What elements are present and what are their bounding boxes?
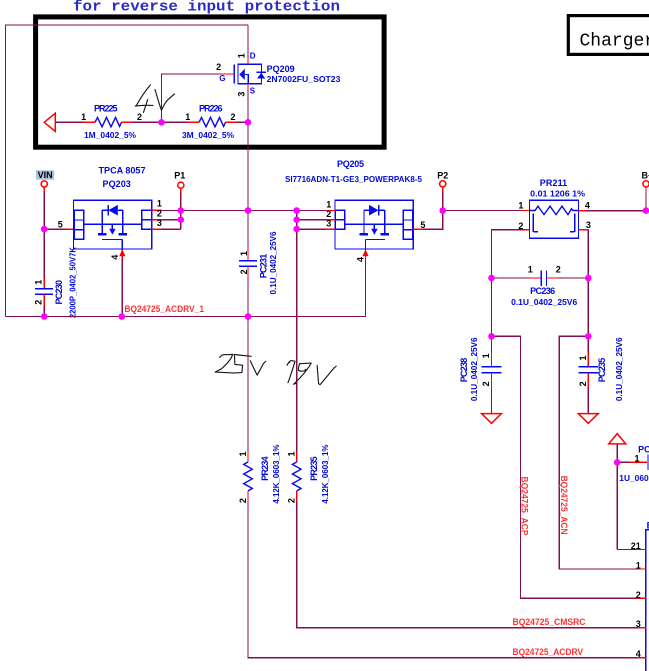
svg-text:2: 2 [578,381,588,386]
svg-text:2: 2 [636,590,641,600]
wire: CMSRC bottom run to IC pin3 [297,502,637,627]
svg-text:2: 2 [556,264,561,274]
wire: PR211 pin3 to ACN vertical [579,229,589,231]
svg-text:4: 4 [636,649,641,659]
svg-text:PC231: PC231 [258,254,268,279]
svg-text:0.1U_0402_25V6: 0.1U_0402_25V6 [511,297,577,307]
wire: P2 node to PR211 [443,210,522,212]
wire: PQ205 pins 2,3 to CMSRC vertical [297,219,327,221]
capacitor PC2xx (right edge, partial) [617,461,629,463]
svg-text:2: 2 [230,112,235,122]
svg-text:1: 1 [528,264,533,274]
resistor PR225 [83,121,95,123]
svg-text:Charger: Charger [580,31,649,51]
svg-text:1: 1 [636,560,641,570]
svg-text:5: 5 [58,220,63,230]
transistor PQ209 [233,65,235,84]
svg-text:D: D [250,52,256,61]
power arrow (up) right branch [609,434,626,444]
svg-text:3: 3 [326,218,331,228]
svg-text:3: 3 [636,619,641,629]
wire: drain drop to PQ209 [247,25,249,58]
wire: left rail + top wire to PQ209 drain [6,25,249,317]
handwriting 19V [287,361,295,383]
PQ205 pin4 stub with arrow [365,249,367,258]
svg-text:21: 21 [631,541,641,551]
svg-text:P1: P1 [174,170,185,180]
wire: main node row [162,210,327,212]
port arrow (input, points left) [44,113,55,131]
resistor PR226 [187,121,199,123]
svg-text:PC235: PC235 [597,358,607,383]
capacitor PC235 [587,336,589,352]
svg-text:P2: P2 [437,170,448,180]
svg-text:2: 2 [481,381,491,386]
IC pin stubs [637,549,646,551]
svg-text:PQ205: PQ205 [337,159,364,169]
ground (PC238) [482,414,502,424]
sense resistor PR211 [530,200,579,238]
svg-text:4.12K_0603_1%: 4.12K_0603_1% [271,444,281,504]
svg-text:1: 1 [518,201,523,211]
svg-text:2200P_0402_50V7K: 2200P_0402_50V7K [68,247,78,318]
svg-text:2: 2 [238,498,248,503]
svg-text:1: 1 [634,454,639,464]
svg-text:PC238: PC238 [459,358,469,383]
svg-text:4.12K_0603_1%: 4.12K_0603_1% [320,444,330,504]
wire: PR211 pin4 to B+ [579,210,587,212]
svg-text:PR226: PR226 [199,104,223,114]
wire: PR211 pin2 to ACP vertical [522,229,530,231]
wire: ACDRV_1 row [6,259,366,317]
svg-text:3: 3 [586,220,591,230]
port VIN [36,170,54,179]
svg-text:B+: B+ [642,171,649,181]
handwriting 4V [136,85,150,106]
svg-text:0.1U_0402_25V6: 0.1U_0402_25V6 [268,231,278,294]
wire: right branch vertical to IC pin 21 [616,444,618,550]
svg-text:PQ209: PQ209 [267,64,295,74]
svg-text:PR211: PR211 [540,178,567,188]
svg-text:1: 1 [238,451,248,456]
svg-text:2: 2 [216,62,221,72]
svg-text:0.01 1206 1%: 0.01 1206 1% [530,188,585,198]
handwriting 25V [215,354,233,373]
svg-text:3: 3 [237,92,247,97]
svg-text:1: 1 [185,112,190,122]
wire: ACN vertical continuation [587,278,589,336]
svg-text:1: 1 [33,280,43,285]
PQ205 pin stubs [327,210,336,212]
svg-text:G: G [219,74,225,83]
svg-text:3M_0402_5%: 3M_0402_5% [182,130,235,140]
svg-text:1: 1 [578,355,588,360]
svg-text:1U_0603_25V6: 1U_0603_25V6 [619,473,649,483]
svg-text:1: 1 [81,112,86,122]
emphasis box (thick black) [36,17,385,147]
svg-text:PC236: PC236 [530,286,555,296]
svg-text:BQ24725_ACDRV: BQ24725_ACDRV [513,647,584,657]
svg-text:PC230: PC230 [54,280,64,305]
PQ203 pin4 stub with arrow [121,249,123,258]
resistor PR235 [296,451,298,462]
wire: PQ205 pin5 to P2 node [424,211,443,230]
svg-text:5: 5 [420,220,425,230]
Charger title box [568,16,649,55]
svg-text:PR225: PR225 [94,104,118,114]
svg-text:2: 2 [239,269,249,274]
wire: VIN down to PC230 [43,187,45,192]
svg-text:BQ24725_ACP: BQ24725_ACP [520,477,530,536]
svg-text:PC24: PC24 [638,444,649,454]
capacitor PC230 [43,278,45,289]
svg-text:1: 1 [481,353,491,358]
ground (PC235) [578,414,598,424]
capacitor PC238 [491,336,493,352]
transistor PQ203 TPCA8057 [74,200,152,249]
wire: PQ209 source down to main node [247,90,249,211]
wire: CMSRC vertical [296,211,298,452]
svg-text:S: S [250,87,256,96]
svg-text:4: 4 [356,257,366,262]
svg-text:for reverse input protection: for reverse input protection [73,0,340,16]
svg-text:0.1U_0402_25V6: 0.1U_0402_25V6 [614,337,624,401]
svg-text:0.1U_0402_25V6: 0.1U_0402_25V6 [469,337,479,401]
transistor PQ205 SI7716ADN [335,200,413,249]
resistor PR234 [247,317,249,452]
svg-text:PR234: PR234 [260,456,270,481]
svg-text:1: 1 [287,451,297,456]
svg-text:BQ24725_ACN: BQ24725_ACN [559,476,569,535]
svg-text:BQ24725_ACDRV_1: BQ24725_ACDRV_1 [124,304,204,314]
wire: PQ209 gate net from PR junction [162,74,222,122]
capacitor PC231 [247,211,249,249]
wire: P1 drop [180,188,182,192]
svg-text:1: 1 [157,198,162,208]
svg-text:4: 4 [585,201,590,211]
svg-text:2: 2 [137,112,142,122]
wire: ACP vertical continuation [491,278,493,336]
svg-text:TPCA 8057: TPCA 8057 [99,166,146,176]
wire: ACDRV bottom run to IC pin4 [248,502,637,657]
PQ203 pin stubs [152,209,163,211]
svg-text:PQ203: PQ203 [103,179,131,189]
svg-text:VIN: VIN [38,170,53,180]
svg-text:4: 4 [110,255,120,260]
svg-text:2: 2 [33,300,43,305]
svg-text:SI7716ADN-T1-GE3_POWERPAK8-5: SI7716ADN-T1-GE3_POWERPAK8-5 [285,174,422,184]
svg-text:1: 1 [326,199,331,209]
svg-text:1: 1 [237,53,247,58]
capacitor PC236 [492,277,531,279]
svg-text:1M_0402_5%: 1M_0402_5% [84,130,137,140]
svg-text:3: 3 [157,218,162,228]
IC U1 (partial, right edge) [646,530,649,671]
svg-text:PR235: PR235 [309,456,319,481]
svg-text:1: 1 [239,251,249,256]
wire: resistor row segments [55,121,83,123]
wire: VIN to PQ203 pin5 [44,228,66,230]
svg-text:2: 2 [287,498,297,503]
svg-text:2N7002FU_SOT23: 2N7002FU_SOT23 [267,74,341,84]
svg-text:BQ24725_CMSRC: BQ24725_CMSRC [513,617,586,627]
